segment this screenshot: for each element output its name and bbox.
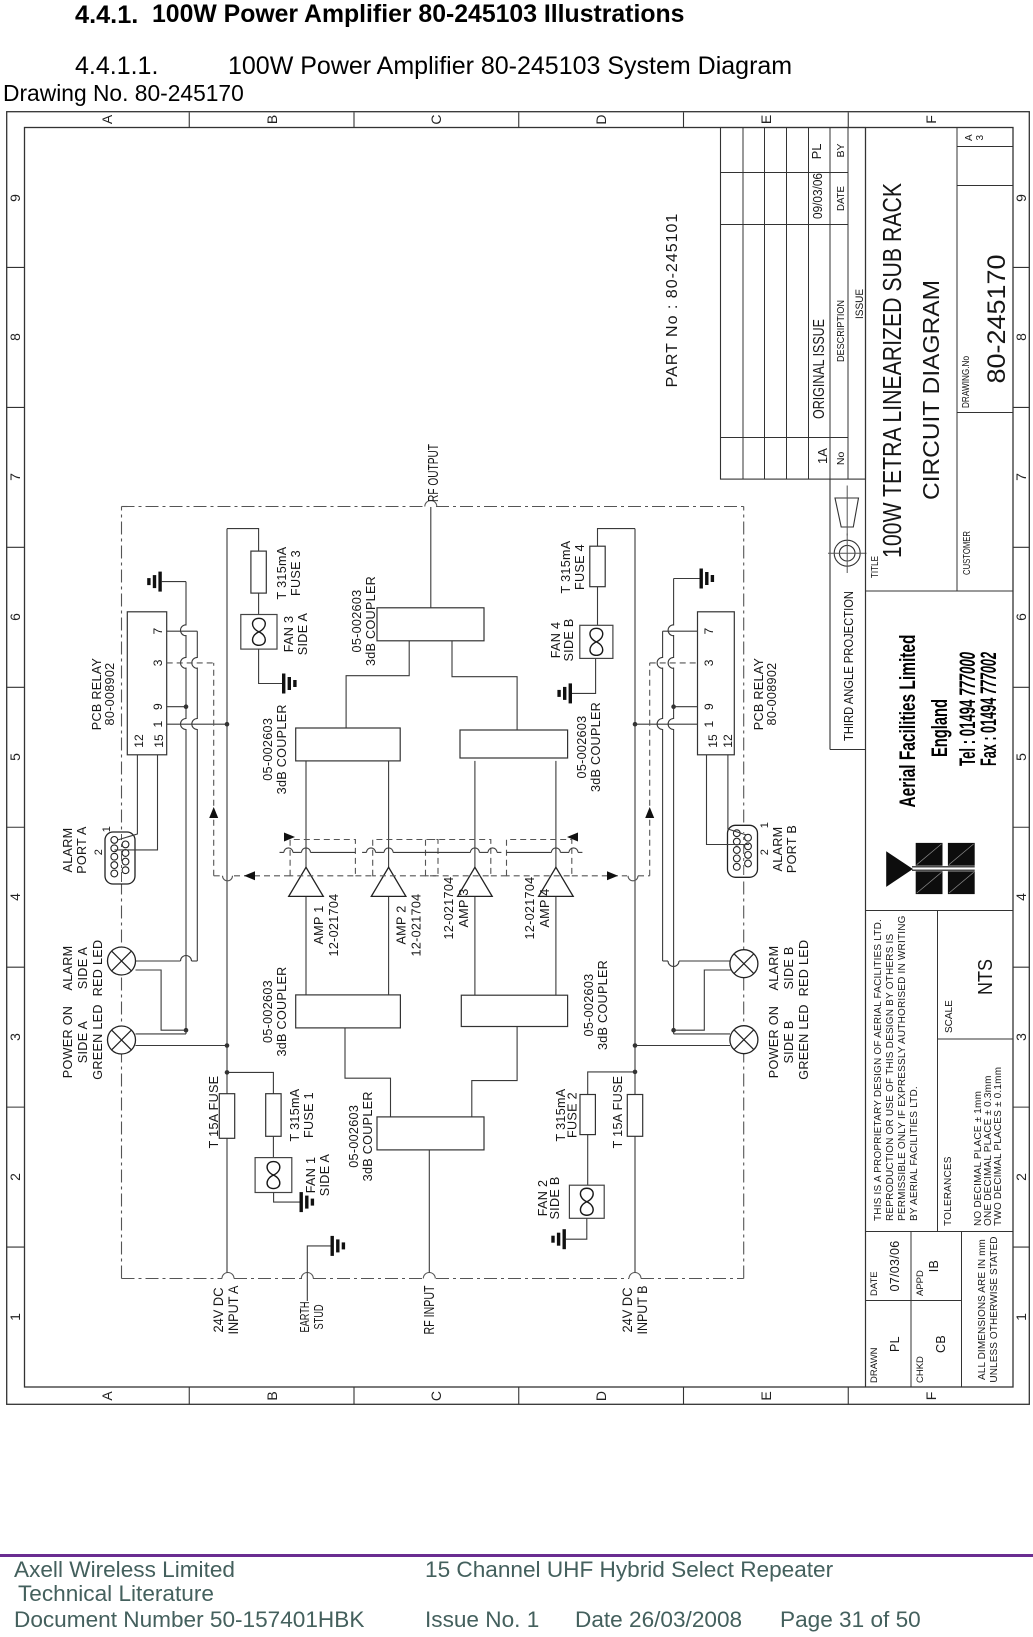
ground fan3 <box>282 674 297 694</box>
wire splitter to amp <box>474 896 476 995</box>
svg-text:RED LED: RED LED <box>91 940 105 997</box>
LED alarm A <box>108 947 136 975</box>
chassis boundary (dash-dot) <box>122 1278 223 1280</box>
svg-text:05-002603: 05-002603 <box>575 716 589 779</box>
svg-text:CHKD: CHKD <box>915 1356 926 1383</box>
wire detector sense line <box>362 851 366 853</box>
svg-text:PL: PL <box>809 143 824 159</box>
fuse F4 <box>590 546 605 587</box>
svg-text:THIRD ANGLE PROJECTION: THIRD ANGLE PROJECTION <box>841 591 856 741</box>
svg-text:CUSTOMER: CUSTOMER <box>962 531 973 575</box>
svg-text:4: 4 <box>1013 893 1029 901</box>
wire RF output <box>430 507 432 608</box>
wire port B pin to relay pin 15 <box>707 755 750 845</box>
svg-text:POWER ON: POWER ON <box>767 1006 781 1078</box>
svg-text:A: A <box>99 114 115 124</box>
svg-text:6: 6 <box>7 613 23 621</box>
svg-text:IB: IB <box>927 1260 941 1272</box>
svg-text:FUSE 2: FUSE 2 <box>566 1092 580 1138</box>
svg-text:80-008902: 80-008902 <box>103 663 117 726</box>
dashed alarm line relay A pin3 <box>167 662 214 664</box>
wire detector sense line <box>426 851 471 853</box>
svg-text:DATE: DATE <box>869 1271 880 1296</box>
svg-text:PERMISSIBLE ONLY IF EXPRESSLY: PERMISSIBLE ONLY IF EXPRESSLY AUTHORISED… <box>897 915 908 1221</box>
svg-text:9: 9 <box>1013 194 1029 202</box>
wire fan4 to ground <box>572 658 596 693</box>
coupler splitter A 05-002603 <box>296 995 401 1028</box>
svg-text:12-021704: 12-021704 <box>327 894 341 957</box>
wire relay A pin9 to ground bus <box>167 706 186 708</box>
svg-text:TWO DECIMAL PLACES ± 0.1mm: TWO DECIMAL PLACES ± 0.1mm <box>993 1067 1004 1226</box>
svg-text:SIDE B: SIDE B <box>782 946 796 989</box>
amp4 <box>539 867 574 896</box>
svg-text:12-021704: 12-021704 <box>442 877 456 940</box>
svg-text:T 15A FUSE: T 15A FUSE <box>207 1076 221 1149</box>
svg-text:3dB COUPLER: 3dB COUPLER <box>364 576 378 666</box>
svg-text:1A: 1A <box>815 448 830 464</box>
svg-text:AMP 3: AMP 3 <box>457 888 471 927</box>
svg-text:SIDE A: SIDE A <box>318 1154 332 1197</box>
svg-text:CIRCUIT DIAGRAM: CIRCUIT DIAGRAM <box>918 280 944 500</box>
svg-text:PORT A: PORT A <box>75 826 89 874</box>
LED alarm B <box>730 950 758 978</box>
wire power LED A stems <box>136 1045 228 1047</box>
svg-text:D: D <box>593 1391 609 1401</box>
svg-text:07/03/06: 07/03/06 <box>888 1240 902 1291</box>
svg-text:NTS: NTS <box>975 959 997 995</box>
coupler combiner A <box>296 728 401 761</box>
svg-text:PCB RELAY: PCB RELAY <box>752 657 766 730</box>
svg-text:STUD: STUD <box>312 1305 326 1330</box>
svg-text:3dB COUPLER: 3dB COUPLER <box>275 966 289 1056</box>
svg-text:05-002603: 05-002603 <box>261 980 275 1043</box>
svg-text:A: A <box>964 134 975 141</box>
svg-text:3: 3 <box>975 134 986 140</box>
wire relay A pin7 to alarm bus <box>167 630 198 632</box>
ground fan2 <box>551 1229 566 1249</box>
svg-text:FAN 3: FAN 3 <box>282 616 296 653</box>
svg-text:7: 7 <box>7 473 23 481</box>
wire fan3 feed riser <box>227 529 259 552</box>
wire input coupler to splitter A <box>345 1028 391 1117</box>
svg-text:B: B <box>264 1391 280 1400</box>
title block strip <box>865 128 867 1388</box>
fuse F1 <box>266 1094 281 1137</box>
wire fuse4 to fan4 <box>597 587 599 626</box>
coupler combiner B <box>460 730 568 758</box>
svg-text:EARTH: EARTH <box>298 1302 312 1333</box>
LED power A <box>108 1026 136 1054</box>
svg-text:INPUT A: INPUT A <box>226 1286 241 1335</box>
svg-text:DESCRIPTION: DESCRIPTION <box>835 300 847 362</box>
wire fan1 to ground <box>274 1193 300 1203</box>
fuse F3 <box>251 551 266 593</box>
svg-text:09/03/06: 09/03/06 <box>810 173 825 219</box>
svg-text:3: 3 <box>702 659 716 666</box>
svg-text:Fax : 01494 777002: Fax : 01494 777002 <box>976 652 1001 766</box>
dashed alarm line relay B pin3 <box>650 662 698 664</box>
svg-text:ORIGINAL ISSUE: ORIGINAL ISSUE <box>811 319 828 419</box>
wire input coupler to splitter B <box>472 1027 517 1117</box>
ground relay B <box>700 569 715 589</box>
PCB RELAY B 80-008902 <box>698 612 735 755</box>
svg-text:8: 8 <box>1013 333 1029 341</box>
svg-text:1: 1 <box>1013 1313 1029 1321</box>
svg-text:PCB RELAY: PCB RELAY <box>90 657 104 730</box>
wire alarm LED A stem <box>136 960 181 962</box>
wire RF input to input coupler <box>428 1150 430 1273</box>
svg-text:12-021704: 12-021704 <box>410 894 424 957</box>
svg-text:PART No : 80-245101: PART No : 80-245101 <box>664 213 681 388</box>
svg-text:7: 7 <box>1013 473 1029 481</box>
svg-text:15: 15 <box>152 734 166 748</box>
fan2 <box>569 1185 604 1218</box>
svg-text:9: 9 <box>7 194 23 202</box>
wire amp to combiner <box>305 761 307 867</box>
svg-text:SIDE A: SIDE A <box>296 613 310 656</box>
svg-text:05-002603: 05-002603 <box>582 974 596 1037</box>
wire relay B pin7 to alarm bus <box>663 630 698 632</box>
svg-text:SIDE B: SIDE B <box>782 1020 796 1063</box>
svg-text:DRAWING.No: DRAWING.No <box>961 356 972 408</box>
svg-text:80-008902: 80-008902 <box>765 663 779 726</box>
alarm bus B <box>662 729 664 961</box>
svg-text:RF OUTPUT: RF OUTPUT <box>425 444 442 502</box>
wire amp to combiner <box>555 761 557 867</box>
svg-text:THIS IS A PROPRIETARY DESIGN O: THIS IS A PROPRIETARY DESIGN OF AERIAL F… <box>873 919 884 1221</box>
wire fuse1 to fan1 <box>272 1136 274 1157</box>
wire splitter to amp <box>305 896 307 995</box>
svg-text:T 315mA: T 315mA <box>288 1088 302 1141</box>
ground fan1 <box>300 1192 315 1212</box>
svg-text:GREEN LED: GREEN LED <box>797 1004 811 1079</box>
svg-text:ALARM: ALARM <box>771 827 785 872</box>
svg-text:1: 1 <box>151 721 165 728</box>
svg-text:5: 5 <box>7 753 23 761</box>
fan4 <box>580 625 613 658</box>
svg-text:24V DC: 24V DC <box>211 1287 226 1332</box>
svg-text:RED LED: RED LED <box>797 940 811 997</box>
svg-text:AMP 1: AMP 1 <box>312 905 326 944</box>
svg-text:80-245170: 80-245170 <box>983 255 1011 384</box>
ground relay A <box>147 572 162 592</box>
svg-text:F: F <box>923 1392 939 1401</box>
svg-text:E: E <box>758 115 774 124</box>
PCB RELAY A 80-008902 <box>127 612 166 755</box>
wire amp to combiner <box>388 761 390 867</box>
svg-text:C: C <box>428 114 444 124</box>
drawing sheet outer frame <box>7 112 1030 1405</box>
dashed detector box amp4 <box>507 840 572 876</box>
chassis line through connector A <box>121 834 123 882</box>
wire fan4 feed riser <box>598 529 636 547</box>
wire 24V rail A <box>226 529 228 1273</box>
svg-text:REPRODUCTION OR USE OF THIS DE: REPRODUCTION OR USE OF THIS DESIGN BY OT… <box>885 933 896 1221</box>
wire relay B pin1 to 24V rail <box>635 723 698 725</box>
svg-text:05-002603: 05-002603 <box>261 718 275 781</box>
svg-text:TITLE: TITLE <box>870 556 881 578</box>
svg-text:DRAWN: DRAWN <box>869 1347 880 1383</box>
svg-text:FAN 4: FAN 4 <box>549 622 563 659</box>
svg-text:7: 7 <box>702 628 716 635</box>
svg-text:12: 12 <box>132 734 146 748</box>
svg-text:SIDE B: SIDE B <box>548 1176 562 1219</box>
svg-text:England: England <box>927 699 952 757</box>
svg-text:POWER ON: POWER ON <box>61 1006 75 1078</box>
svg-text:3dB COUPLER: 3dB COUPLER <box>589 702 603 792</box>
LED power B <box>730 1026 758 1054</box>
svg-text:3: 3 <box>151 659 165 666</box>
fuse T15A side A <box>219 1094 234 1139</box>
svg-text:D: D <box>593 114 609 124</box>
svg-text:SIDE A: SIDE A <box>76 947 90 990</box>
fuse F2 <box>580 1095 595 1135</box>
amp2 <box>371 867 406 896</box>
svg-text:ISSUE: ISSUE <box>854 289 866 319</box>
svg-text:9: 9 <box>702 703 716 710</box>
svg-text:9: 9 <box>151 703 165 710</box>
wire fan3 to ground <box>259 649 282 683</box>
svg-text:ALL DIMENSIONS ARE IN mm: ALL DIMENSIONS ARE IN mm <box>977 1239 988 1380</box>
svg-text:B: B <box>264 115 280 124</box>
alarm bus A <box>196 729 198 961</box>
fan1 <box>255 1158 292 1193</box>
svg-text:100W TETRA LINEARIZED SUB RACK: 100W TETRA LINEARIZED SUB RACK <box>877 182 907 558</box>
coupler splitter B 05-002603 <box>461 995 567 1026</box>
dsub A <box>105 832 135 884</box>
svg-text:2: 2 <box>759 849 771 855</box>
AFL logo <box>886 843 975 894</box>
dashed detector box amp3 <box>426 840 491 876</box>
svg-text:T 15A FUSE: T 15A FUSE <box>611 1076 625 1149</box>
wire 24V rail B <box>634 529 636 1273</box>
svg-text:6: 6 <box>1013 613 1029 621</box>
wire splitter to amp <box>555 896 557 995</box>
ground bus B <box>673 729 675 1034</box>
svg-text:3dB COUPLER: 3dB COUPLER <box>596 960 610 1050</box>
wire combiner B to output coupler <box>452 641 517 730</box>
amp1 <box>289 867 324 896</box>
svg-text:1: 1 <box>7 1313 23 1321</box>
wire alarm LED A to ground bus <box>136 970 187 1030</box>
revision table <box>721 128 866 480</box>
ground earth stud <box>331 1236 346 1256</box>
wire port A pin to relay pin 12 <box>118 755 138 840</box>
svg-text:4: 4 <box>7 893 23 901</box>
svg-text:Aerial Facilities Limited: Aerial Facilities Limited <box>895 635 920 808</box>
svg-text:T 315mA: T 315mA <box>275 546 289 599</box>
coupler output 05-002603 <box>377 608 484 641</box>
wire fuse3 to fan3 <box>258 593 260 614</box>
svg-text:FUSE 4: FUSE 4 <box>573 544 587 590</box>
projection symbol: truncated cone side view <box>835 498 859 527</box>
svg-text:3dB COUPLER: 3dB COUPLER <box>275 704 289 794</box>
svg-text:12-021704: 12-021704 <box>523 877 537 940</box>
svg-text:CB: CB <box>934 1335 948 1353</box>
svg-text:T 315mA: T 315mA <box>559 540 573 593</box>
third angle projection cell <box>829 479 831 749</box>
svg-text:SIDE A: SIDE A <box>76 1021 90 1064</box>
svg-text:PORT B: PORT B <box>785 825 799 873</box>
svg-text:24V DC: 24V DC <box>620 1287 635 1332</box>
svg-text:3: 3 <box>1013 1033 1029 1041</box>
svg-text:1: 1 <box>759 822 771 828</box>
svg-text:05-002603: 05-002603 <box>350 590 364 653</box>
svg-text:15: 15 <box>706 734 720 748</box>
svg-text:SCALE: SCALE <box>944 1000 955 1033</box>
wire port A pin to relay pin 15 <box>115 755 158 850</box>
svg-text:05-002603: 05-002603 <box>347 1105 361 1168</box>
wire detector sense line <box>280 851 284 853</box>
wire alarm LED B stem <box>663 960 668 962</box>
svg-text:RF INPUT: RF INPUT <box>421 1286 438 1335</box>
svg-text:2: 2 <box>93 849 105 855</box>
svg-text:5: 5 <box>1013 753 1029 761</box>
svg-text:BY AERIAL FACILITIES LTD.: BY AERIAL FACILITIES LTD. <box>909 1086 920 1221</box>
wire relay B pin9 to ground bus <box>674 706 698 708</box>
svg-text:DATE: DATE <box>835 186 847 211</box>
wire fuse2 to fan2 <box>587 1135 589 1186</box>
wire fan2 to ground <box>566 1218 587 1239</box>
fan3 <box>241 615 277 650</box>
svg-text:2: 2 <box>7 1173 23 1181</box>
svg-text:8: 8 <box>7 333 23 341</box>
wire amp to combiner <box>474 761 476 867</box>
svg-text:FAN 1: FAN 1 <box>304 1157 318 1194</box>
svg-text:UNLESS OTHERWISE STATED: UNLESS OTHERWISE STATED <box>989 1236 1000 1382</box>
wire port B pin to relay pin 12 <box>728 755 747 835</box>
ground fan4 <box>557 683 572 703</box>
svg-text:2: 2 <box>1013 1173 1029 1181</box>
svg-text:APPD: APPD <box>915 1270 926 1296</box>
svg-text:ALARM: ALARM <box>61 946 75 991</box>
svg-text:INPUT B: INPUT B <box>635 1286 650 1335</box>
wire power LED B stems <box>635 1045 730 1047</box>
amp3 <box>458 867 493 896</box>
wire branch to fuse 1 <box>227 1072 273 1093</box>
coupler input splitter 05-002603 <box>377 1117 484 1150</box>
svg-text:SIDE B: SIDE B <box>562 618 576 661</box>
dsub B <box>728 825 758 877</box>
svg-text:AMP 4: AMP 4 <box>538 888 552 927</box>
svg-text:PL: PL <box>888 1336 902 1352</box>
chassis line through connector B <box>743 832 745 875</box>
svg-text:1: 1 <box>702 721 716 728</box>
ground bus A <box>185 729 187 1034</box>
svg-text:ALARM: ALARM <box>767 946 781 991</box>
wire combiner A to output coupler <box>346 641 409 728</box>
junction dots <box>225 722 230 727</box>
dashed detector box amp2 <box>373 840 438 876</box>
svg-text:3dB COUPLER: 3dB COUPLER <box>361 1091 375 1181</box>
svg-text:A: A <box>99 1391 115 1401</box>
wire detector sense line <box>507 851 552 853</box>
wire alarm LED B to ground bus <box>674 970 753 1030</box>
svg-text:AMP 2: AMP 2 <box>395 905 409 944</box>
svg-text:FUSE 3: FUSE 3 <box>289 550 303 596</box>
svg-text:No: No <box>835 452 847 466</box>
svg-text:TOLERANCES: TOLERANCES <box>943 1156 954 1226</box>
drawing sheet inner frame <box>25 128 1014 1388</box>
projection symbol: front view circles <box>834 540 860 566</box>
svg-text:E: E <box>758 1391 774 1400</box>
svg-text:C: C <box>428 1391 444 1401</box>
fuse T15A side B <box>627 1095 642 1137</box>
svg-text:ALARM: ALARM <box>61 828 75 873</box>
svg-text:GREEN LED: GREEN LED <box>91 1004 105 1079</box>
svg-text:FUSE 1: FUSE 1 <box>302 1092 316 1138</box>
svg-text:3: 3 <box>7 1033 23 1041</box>
svg-text:12: 12 <box>721 734 735 748</box>
svg-text:BY: BY <box>835 143 847 157</box>
wire relay A pin1 to 24V rail <box>167 723 227 725</box>
svg-text:F: F <box>923 115 939 124</box>
svg-text:7: 7 <box>151 628 165 635</box>
wire branch to fuse 2 <box>588 1072 635 1095</box>
wire splitter to amp <box>388 896 390 995</box>
svg-text:1: 1 <box>101 826 113 832</box>
dashed detector box amp1 <box>290 840 355 876</box>
